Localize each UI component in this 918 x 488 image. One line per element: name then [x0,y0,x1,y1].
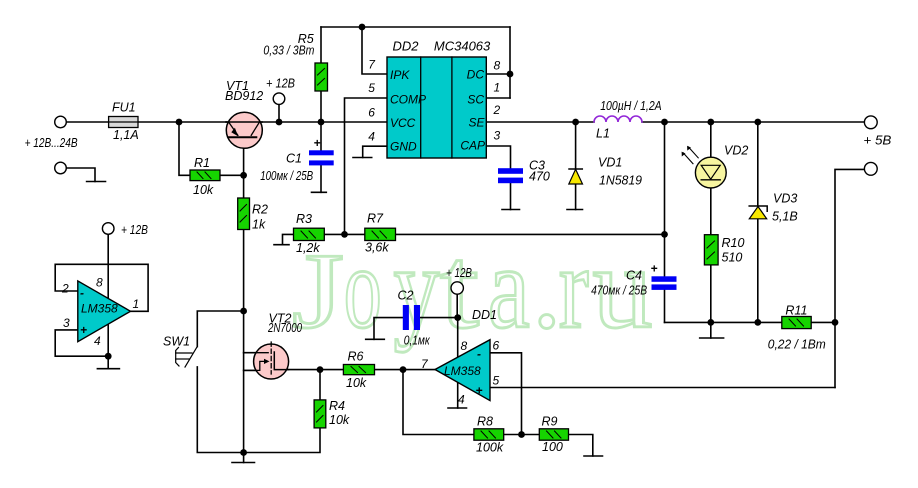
wire R7 to output column [396,233,665,235]
svg-text:5,1В: 5,1В [772,210,798,224]
wire R4 top [319,370,321,400]
svg-text:C2: C2 [398,289,414,303]
svg-text:1,2k: 1,2k [296,241,320,255]
terminal out - [864,162,877,175]
svg-text:FU1: FU1 [112,101,136,115]
ground SW1 rail [243,453,245,463]
node +12V-rail junction [276,119,283,126]
capacitor C4 [652,276,677,290]
wire DD1 pin6 loop [490,353,522,435]
svg-text:4: 4 [458,393,465,407]
wire SE pin 2 to L1 [486,121,594,123]
wire SW1 top branch [197,311,243,347]
svg-text:SW1: SW1 [163,335,190,349]
wire +12V terminal to rail at VT1 collector [278,104,280,122]
node VD2 branch junction [707,119,714,126]
wire 2nd output terminal down right column [835,169,865,387]
node C2-DD1 pin8 junction [454,314,461,321]
ground C2 [366,338,385,340]
svg-text:R2: R2 [252,203,268,217]
terminal +12V at U1 [102,223,114,235]
wire bottom ground rail [665,321,836,323]
svg-text:5: 5 [368,81,375,95]
svg-text:5: 5 [493,374,500,388]
node R5-C1-rail junction [318,119,325,126]
ground R9 [584,455,603,457]
wire pin 4 GND [363,146,387,157]
capacitor C2 [403,305,420,330]
wire VD2 column [710,122,712,235]
wire pin 1 SC [486,97,510,99]
svg-text:+ 12В: + 12В [121,223,148,237]
ground DD1 [448,407,467,409]
zener VD3 5,1V [749,206,767,219]
svg-text:8: 8 [461,339,468,353]
wire VD1 bottom [575,184,577,210]
wire VT1 to DD2 VCC pin 6 [226,121,387,123]
svg-text:R10: R10 [722,236,745,250]
svg-text:DC: DC [467,68,485,82]
svg-text:R9: R9 [542,415,558,429]
terminal +12V at C2 [451,282,463,294]
svg-text:DD1: DD1 [472,308,497,322]
wire R2 bottom to SW1 node [243,230,245,312]
svg-text:100: 100 [542,440,563,454]
svg-text:COMP: COMP [390,93,426,107]
terminal +5V out [864,116,877,129]
wire VT1 base lead [243,137,245,198]
wire VT2 gate [244,352,269,354]
inductor L1 [594,116,642,122]
node ground rail-VD3 junction [754,319,761,326]
svg-text:R6: R6 [348,350,364,364]
svg-text:2N7000: 2N7000 [267,321,302,335]
svg-text:100k: 100k [476,441,504,455]
svg-text:6: 6 [493,339,500,353]
svg-text:2: 2 [61,282,69,296]
resistor R5 [315,63,328,91]
resistor R10 [704,235,718,265]
ground op-amp [97,368,119,370]
wire VD3 bottom [757,219,759,323]
svg-text:+ 5В: + 5В [863,134,891,148]
node R6-DD1 pin7 junction [400,366,407,373]
wire bottom rail to R4 [244,428,320,453]
svg-text:MC34063: MC34063 [434,38,491,53]
svg-text:LM358: LM358 [444,364,481,378]
wire pin 8 DC [486,73,510,75]
wire R5 bottom to rail [320,91,322,122]
wire DD1 pin8 [457,318,459,358]
svg-text:100µH / 1,2A: 100µH / 1,2A [600,99,662,113]
node U1 pin3-pin4 ground junction [105,353,112,360]
wire +12V terminal to op-amp pin 8 [107,234,109,299]
switch SW1 [176,347,197,367]
svg-text:R1: R1 [194,156,210,170]
wire op-amp pin3 to ground node [55,330,108,356]
transistor VT1 BD912 [226,112,262,148]
svg-text:1k: 1k [252,218,266,232]
wire right vertical pins 8 and 1 [509,27,511,98]
ground C1 [312,191,327,193]
wire R3 ground hook [283,234,294,244]
node ground rail-R10 junction [707,319,714,326]
svg-text:DD2: DD2 [393,38,420,53]
svg-text:CAP: CAP [460,139,485,153]
svg-text:-: - [80,286,84,300]
transistor VT2 2N7000 [244,342,289,379]
wire VT2 source branch [244,361,269,370]
resistor R4 [314,400,326,428]
svg-text:1: 1 [494,81,501,95]
svg-text:VD3: VD3 [773,192,797,206]
svg-text:+: + [651,262,658,276]
svg-text:SE: SE [468,116,485,130]
fuse FU1 [109,117,138,128]
svg-text:470: 470 [529,170,550,184]
op-amp DD1 LM358 [435,340,490,401]
resistor R2 [238,198,250,230]
wire VT2 gate column [243,311,245,453]
wire input gnd terminal [66,168,95,182]
svg-text:+: + [80,323,87,337]
wire R1 right to base node [220,174,244,176]
svg-text:8: 8 [494,59,501,73]
svg-text:VD2: VD2 [724,144,748,158]
svg-text:R4: R4 [329,399,345,413]
wire top rail to pins 8-1 [321,26,510,28]
ground input [87,181,106,183]
resistor R8 [474,429,504,440]
node SE-VD1 junction [572,119,579,126]
svg-text:-: - [477,347,481,361]
svg-text:C4: C4 [626,269,642,283]
wire C3 bottom [510,183,512,209]
wire pin 5 COMP down to R3-R7 node [345,98,388,234]
wire C1 bottom [320,165,322,192]
resistor R9 [539,429,568,440]
svg-text:SC: SC [467,93,484,107]
wire DD1 feedback to R8 [403,370,474,435]
wire op-amp pin4 down [107,324,109,369]
svg-text:470мк / 25В: 470мк / 25В [591,283,647,297]
svg-text:.: . [532,222,562,353]
svg-text:10k: 10k [346,376,367,390]
svg-text:C1: C1 [286,152,302,166]
svg-text:IPK: IPK [390,68,410,82]
svg-text:4: 4 [94,334,101,348]
svg-text:+: + [314,136,321,150]
wire pin 3 CAP to C3 [486,146,511,168]
LED VD2 [682,146,727,188]
svg-text:+ 12В: + 12В [446,266,472,280]
wire R8 to R9 [504,434,540,436]
wire R3 to R7 [324,233,365,235]
svg-text:0,22 / 1Вm: 0,22 / 1Вm [768,338,826,352]
node fuse-R1 junction [176,119,183,126]
svg-text:1,1A: 1,1A [113,128,139,142]
svg-text:0,1мк: 0,1мк [404,334,431,348]
wire DD1 pin4 [457,383,459,409]
svg-text:R8: R8 [477,415,493,429]
svg-text:510: 510 [722,251,743,265]
wire R10 bottom [710,265,712,323]
node VD3 branch junction [754,119,761,126]
node L1 output junction [661,119,668,126]
svg-text:VD1: VD1 [598,156,622,170]
wire R6 to DD1 pin 7 [375,369,436,371]
ground DD2 pin4 [353,157,372,159]
wire C2 left to ground [374,318,403,340]
svg-text:R11: R11 [785,304,807,318]
wire DD1 pin5 from R11 column [490,387,835,389]
wire VD3 column top [757,122,759,206]
resistor R6 [343,365,374,375]
svg-text:+ 12В: + 12В [266,77,295,91]
op-amp DD2 MC34063 [387,57,486,158]
wire C4 bottom to ground rail [664,290,666,323]
wire IPK pin 7 drop [362,27,386,74]
node SW1-ground rail junction [240,449,247,456]
watermark Joyta.ru [292,222,653,353]
svg-text:a: a [488,222,530,353]
ground C3 [502,209,520,211]
svg-text:3,6k: 3,6k [365,241,389,255]
wire VT2 out to R6 [274,369,343,371]
svg-text:3: 3 [494,129,501,143]
svg-text:r: r [559,222,589,353]
svg-text:10k: 10k [193,183,214,197]
resistor R3 [294,228,325,240]
wire C2 +12V terminal drop [456,294,458,318]
wire SW1 bottom lead [197,367,243,453]
wire L1 to +5V terminal [642,121,865,123]
node VT1 base-R1-R2 junction [240,172,247,179]
node R8-R9-pin6 junction [518,431,525,438]
node R7-C4 junction [661,231,668,238]
node top rail-IPK junction [359,24,366,31]
terminal input - [55,162,67,174]
svg-text:100мк / 25В: 100мк / 25В [260,169,313,183]
svg-text:GND: GND [390,139,417,153]
terminal +12V at VT1 [273,93,285,105]
svg-text:10k: 10k [329,413,350,427]
svg-text:R3: R3 [296,212,312,226]
node R2-SW1-VT2 junction [240,308,247,315]
node VT2-R6-R4 junction [317,366,324,373]
wire output node down to R7 row and C4 [664,122,666,276]
svg-text:3: 3 [63,316,70,330]
node COMP-R3-R7 junction [341,231,348,238]
svg-text:L1: L1 [596,127,610,141]
wire R5 top to top rail [320,27,322,63]
resistor R11 [782,317,811,329]
wire R9 to ground [569,435,593,457]
svg-text:LM358: LM358 [81,302,118,316]
wire VD1 top [575,122,577,169]
svg-text:+: + [476,384,483,398]
wire R1 branch down [179,122,190,175]
terminal input + [55,116,67,128]
wire op-amp feedback pin2 loop [55,264,148,311]
ground VD1 [567,209,583,211]
diode VD1 1N5819 [569,169,583,184]
svg-text:1: 1 [133,297,140,311]
svg-text:8: 8 [96,276,103,290]
ground bottom rail [710,322,712,338]
svg-text:+ 12В...24В: + 12В...24В [25,136,78,150]
node R11-output column junction [832,319,839,326]
svg-text:R7: R7 [367,212,384,226]
svg-text:VCC: VCC [390,116,416,130]
svg-text:6: 6 [368,105,375,119]
capacitor C3 [498,168,523,183]
svg-text:2: 2 [493,103,501,117]
resistor R7 [365,228,396,240]
node DC-SC junction [507,71,514,78]
resistor R1 [190,170,220,181]
svg-text:0,33 / 3Вm: 0,33 / 3Вm [263,44,314,58]
wire main input rail [66,121,226,123]
svg-text:4: 4 [368,129,375,143]
svg-text:1N5819: 1N5819 [599,174,642,188]
capacitor C1 [309,150,334,165]
wire C1 top [320,122,322,150]
op-amp U1 LM358 (second half) [78,281,131,342]
wire C2 right [420,317,458,319]
svg-text:BD912: BD912 [225,89,263,103]
